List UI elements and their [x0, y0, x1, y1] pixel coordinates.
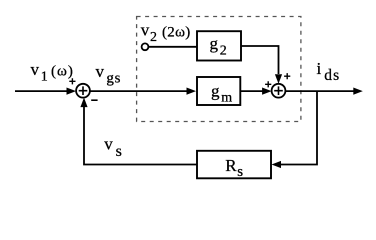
summing junction S2 — [272, 84, 286, 98]
block g_m — [197, 77, 240, 105]
arrowhead down into S2 — [275, 74, 282, 84]
plus sign (input) at S1 — [69, 78, 75, 84]
svg-text:gs: gs — [106, 70, 121, 86]
svg-text:2: 2 — [220, 44, 227, 59]
node: v2 input terminal (open circle) — [142, 43, 149, 50]
wire: R_s output left and up to S1 — [84, 107, 197, 165]
plus inside S1 — [79, 86, 88, 95]
svg-text:v: v — [96, 62, 105, 81]
wire: v2 to g2 — [149, 46, 198, 48]
svg-text:s: s — [237, 164, 243, 180]
svg-text:s: s — [116, 143, 122, 160]
wire: g_m to S2 — [240, 90, 263, 92]
block g2 — [197, 31, 241, 60]
plus sign (g_m input) at S2 — [265, 81, 271, 87]
svg-text:m: m — [221, 90, 232, 105]
svg-text:2: 2 — [150, 30, 157, 45]
arrowhead into g_m — [187, 88, 197, 95]
svg-text:g: g — [210, 34, 219, 53]
svg-text:v: v — [104, 135, 113, 154]
dashed box (device boundary) — [137, 17, 301, 122]
block R_s — [197, 151, 271, 179]
output arrowhead — [353, 88, 363, 95]
svg-text:R: R — [225, 156, 237, 175]
wire: S2 to output i_ds — [285, 90, 355, 92]
wire: branch from output down to R_s — [281, 91, 317, 164]
wire: S1 to g_m — [90, 90, 188, 92]
svg-text:1: 1 — [41, 69, 48, 84]
arrowhead into summer S1 — [67, 88, 77, 95]
svg-text:ds: ds — [324, 67, 340, 84]
svg-text:i: i — [317, 59, 322, 78]
minus sign (feedback) at S1 — [91, 99, 97, 101]
svg-text:(ω): (ω) — [51, 63, 74, 79]
svg-text:v: v — [31, 60, 40, 79]
svg-text:v: v — [141, 21, 150, 40]
svg-text:g: g — [211, 82, 220, 101]
summing junction S1 — [76, 84, 90, 98]
arrowhead into S2 — [262, 88, 272, 95]
arrowhead up into S1 bottom — [80, 98, 87, 108]
plus sign (g2 input) at S2 — [284, 73, 290, 79]
wire: g2 output to summer S2 — [241, 46, 279, 74]
svg-text:(2ω): (2ω) — [162, 24, 191, 40]
wire: input v1 line — [15, 90, 68, 92]
arrowhead into R_s right side — [272, 161, 282, 168]
plus inside S2 — [274, 86, 283, 95]
